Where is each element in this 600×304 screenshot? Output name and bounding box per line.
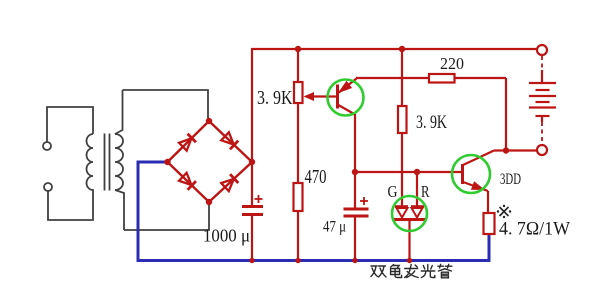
- svg-text:R: R: [421, 182, 430, 201]
- svg-text:3. 9K: 3. 9K: [416, 113, 447, 133]
- svg-text:3DD: 3DD: [500, 171, 521, 188]
- svg-text:4. 7Ω/1W: 4. 7Ω/1W: [499, 219, 570, 240]
- svg-text:470: 470: [305, 166, 327, 188]
- svg-text:3. 9K: 3. 9K: [257, 87, 293, 109]
- svg-text:1000 μ: 1000 μ: [203, 226, 250, 246]
- svg-text:47 μ: 47 μ: [323, 219, 346, 236]
- svg-text:G: G: [388, 182, 398, 201]
- svg-text:220: 220: [440, 54, 464, 73]
